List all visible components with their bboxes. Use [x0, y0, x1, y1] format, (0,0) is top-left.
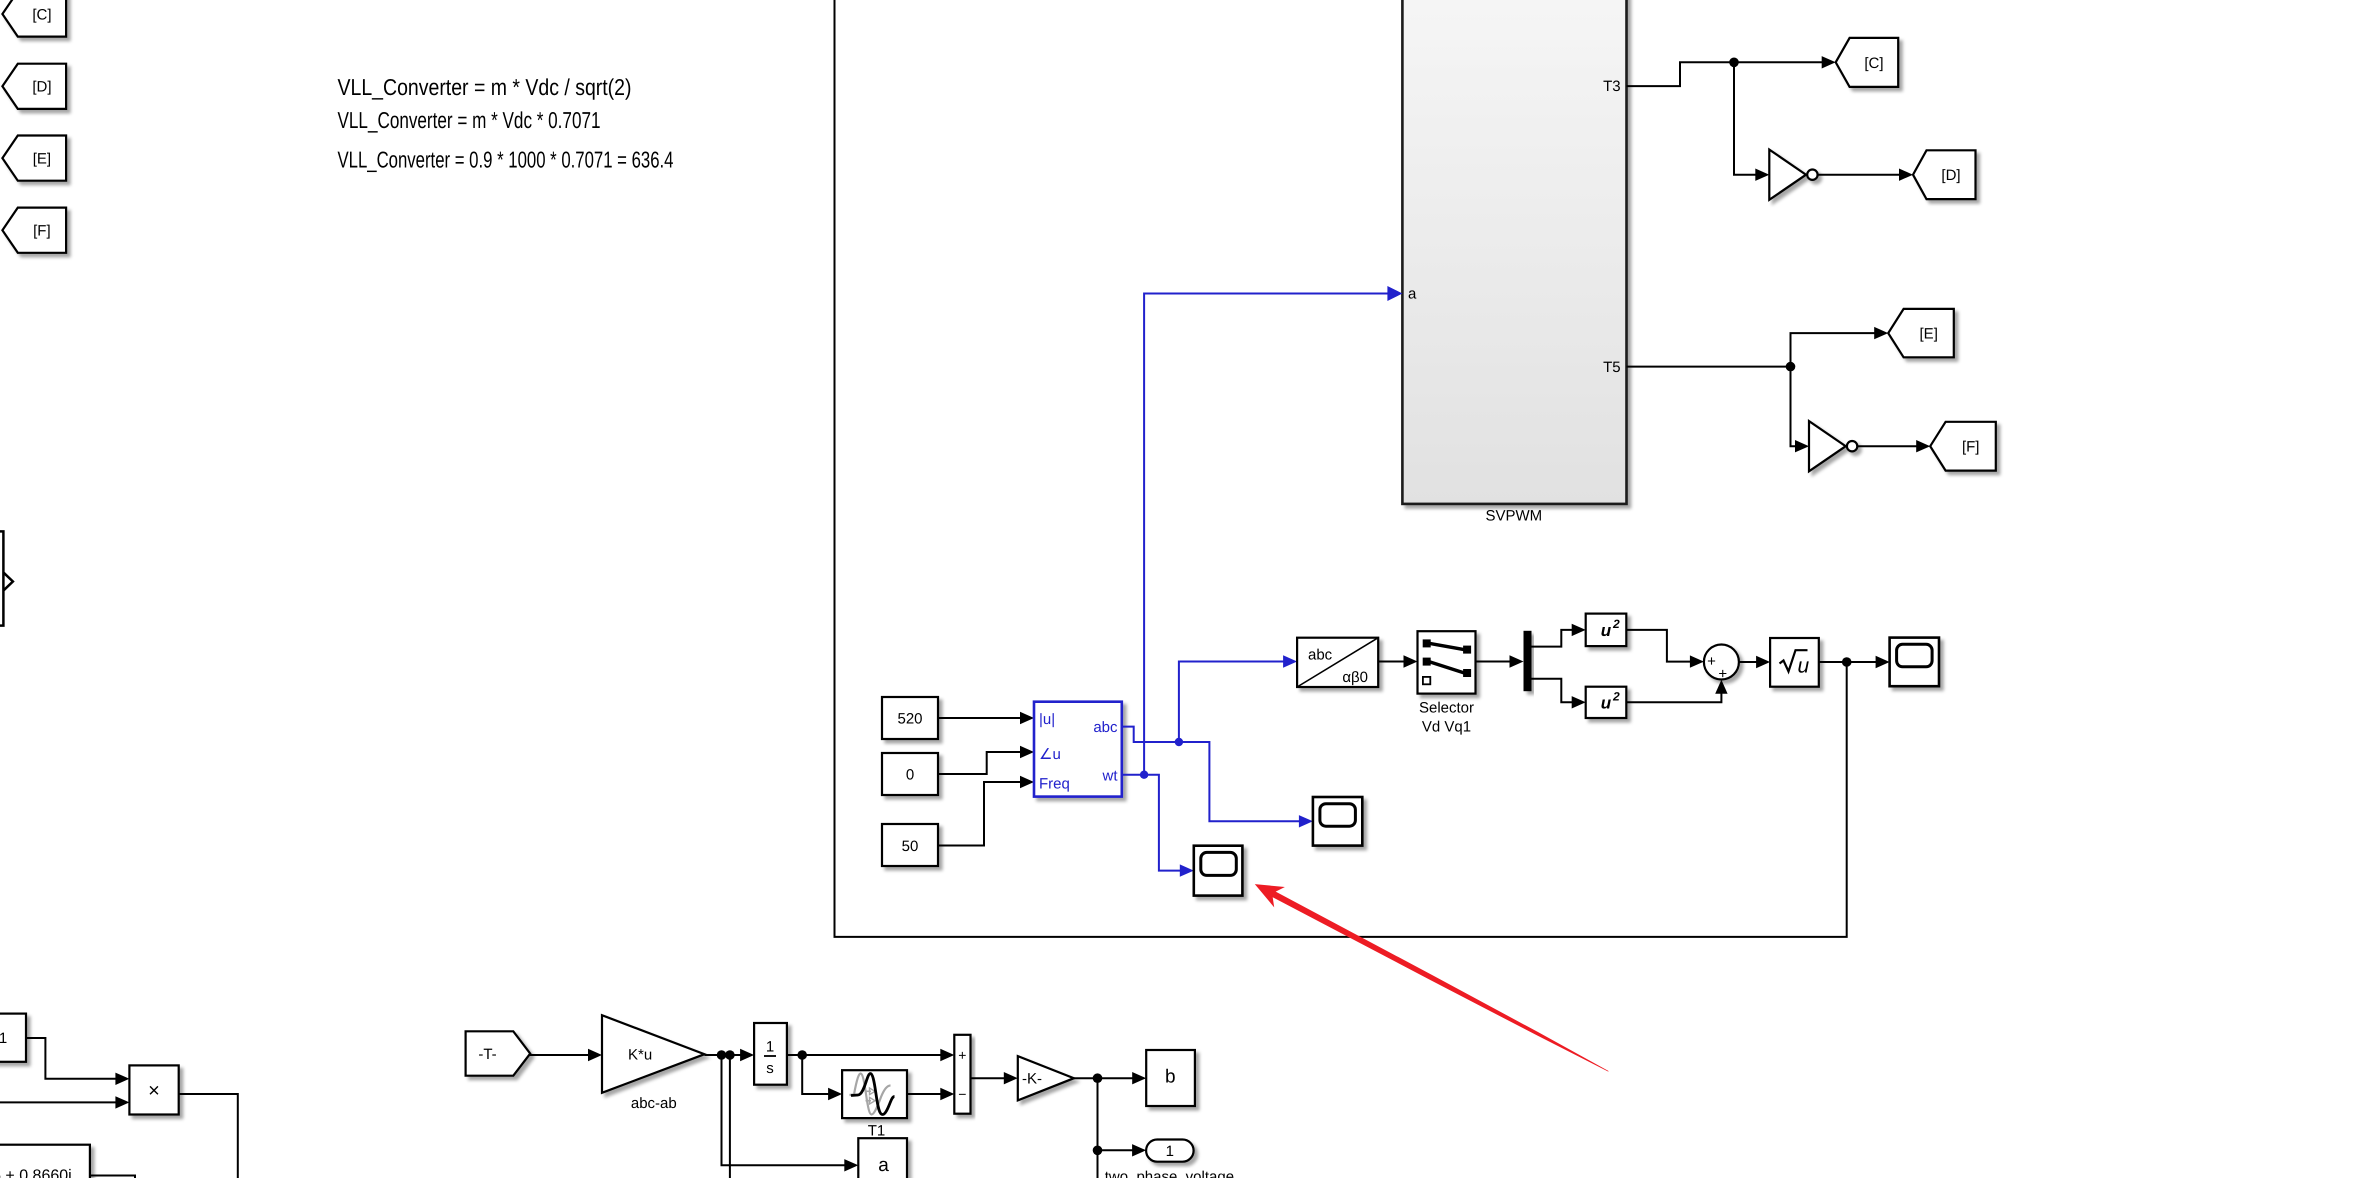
wire T1 to sum2 minus [907, 1093, 942, 1095]
junction after -K- [1093, 1073, 1103, 1083]
annotation VLL_Converter formulas [338, 74, 674, 173]
from tag [E] left column [2, 136, 66, 181]
wire sqrt to scope3 [1819, 661, 1878, 663]
wire branch down offscreen [729, 1055, 731, 1178]
svg-text:Vd Vq1: Vd Vq1 [1422, 719, 1471, 736]
partial output port block left edge [0, 531, 13, 625]
wire sum2 to gain -K- [971, 1077, 1006, 1079]
svg-text:abc: abc [1093, 719, 1118, 736]
goto tag [D] [1913, 150, 1976, 199]
sine wave generator block [1034, 702, 1122, 797]
svg-text:[D]: [D] [1941, 167, 1960, 184]
svg-text:-K-: -K- [1022, 1071, 1042, 1088]
wire demux to u2 top [1532, 630, 1574, 647]
scope2 [1194, 846, 1243, 896]
wire junction to goto C [1734, 61, 1824, 63]
block b [1146, 1050, 1195, 1106]
wire u2 top to sum [1626, 630, 1692, 662]
junction T3 [1729, 58, 1739, 68]
svg-text:a: a [1408, 286, 1417, 303]
svg-text:[C]: [C] [1864, 55, 1883, 72]
svg-text:T3: T3 [1603, 78, 1621, 95]
wire input2 to product [0, 1101, 117, 1103]
from tag [C] left column [2, 0, 66, 37]
not gate U2 [1809, 421, 1857, 471]
svg-text:T1: T1 [868, 1123, 886, 1140]
wire 0 to sin gen [938, 752, 1022, 774]
from tag [F] left column [2, 208, 66, 253]
svg-text:K*u: K*u [628, 1047, 652, 1064]
from tag [D] left column [2, 64, 66, 109]
wire integrator to sum2 plus [787, 1054, 942, 1056]
wire branch to block a [722, 1055, 847, 1165]
svg-text:520: 520 [897, 710, 922, 727]
goto tag [C] [1836, 38, 1899, 87]
selector block [1418, 631, 1476, 693]
svg-text:b: b [1165, 1067, 1176, 1088]
wire const1 to product [26, 1038, 117, 1079]
wire not gate 2 to goto F [1857, 445, 1918, 447]
gain K*u abc-ab [602, 1015, 705, 1093]
constant complex partial [0, 1145, 90, 1178]
wire continue down offscreen [1097, 1150, 1099, 1178]
wire wt down to scope2 [1144, 775, 1182, 871]
math sqrt block [1770, 638, 1819, 687]
svg-text:[F]: [F] [33, 223, 51, 240]
svg-text:T5: T5 [1603, 359, 1621, 376]
junction T5 [1786, 362, 1796, 372]
wire wt output junction [1122, 774, 1144, 776]
goto tag [E] [1888, 309, 1954, 357]
svg-text:1: 1 [0, 1030, 7, 1047]
wire gain to integrator [705, 1054, 743, 1056]
gain -K- [1018, 1056, 1074, 1100]
svg-text:Selector: Selector [1419, 700, 1474, 717]
goto tag [F] [1930, 422, 1996, 471]
wire junction down to not gate 2 [1791, 367, 1798, 447]
wire wt up to SVPWM a port [1144, 294, 1390, 775]
product block [129, 1065, 178, 1114]
transport delay T1 [842, 1070, 907, 1118]
svg-text:abc-ab: abc-ab [631, 1095, 677, 1112]
wire -K- to b [1074, 1077, 1134, 1079]
constant 520 [882, 697, 938, 739]
wire complex out [90, 1176, 135, 1178]
svg-text:wt: wt [1102, 768, 1119, 785]
outport 1 [1146, 1140, 1194, 1162]
constant 0 [882, 753, 938, 795]
math u^2 bottom [1586, 687, 1627, 718]
svg-text:[E]: [E] [33, 151, 51, 168]
junction outport [1093, 1146, 1103, 1156]
wire T3 to junction [1627, 62, 1735, 86]
svg-text:-T-: -T- [478, 1046, 496, 1063]
integrator 1/s [754, 1023, 787, 1085]
subsystem SVPWM [1402, 0, 1626, 504]
wire junction down to scope1 [1179, 742, 1301, 821]
svg-text:Freq: Freq [1039, 776, 1070, 793]
svg-text:2: 2 [1612, 690, 1620, 704]
from tag -T- [466, 1031, 531, 1075]
wire junction to goto E [1791, 333, 1877, 367]
block a [858, 1138, 907, 1178]
svg-text:αβ0: αβ0 [1342, 669, 1368, 686]
wire u2 bottom to sum [1626, 692, 1721, 703]
svg-text:VLL_Converter = m * Vdc * 0.70: VLL_Converter = m * Vdc * 0.7071 [338, 107, 601, 133]
svg-text:[D]: [D] [32, 79, 51, 96]
svg-text:2: 2 [1612, 617, 1620, 631]
svg-text:[E]: [E] [1920, 326, 1938, 343]
wire junction down to outport [1098, 1078, 1135, 1150]
wire T5 to junction [1627, 366, 1791, 368]
junction sqrt out [1842, 657, 1852, 667]
junction after integrator [797, 1050, 807, 1060]
scope3 [1890, 638, 1939, 687]
svg-text:[C]: [C] [32, 7, 51, 24]
svg-text:u: u [1601, 694, 1612, 713]
scope1 [1313, 797, 1362, 846]
wire not gate to goto D [1818, 174, 1901, 176]
svg-text:5 + 0.8660i: 5 + 0.8660i [0, 1168, 72, 1178]
wire sum to sqrt [1739, 661, 1758, 663]
svg-text:two_phase_voltage: two_phase_voltage [1105, 1169, 1234, 1178]
svg-text:−: − [958, 1086, 966, 1102]
svg-text:0: 0 [906, 766, 914, 783]
junction a1 [717, 1050, 727, 1060]
not gate U1 [1769, 150, 1817, 200]
svg-text:1: 1 [1166, 1143, 1174, 1160]
svg-text:abc: abc [1308, 647, 1333, 664]
wire abc output to junction [1122, 727, 1179, 742]
junction a2 [725, 1050, 735, 1060]
wire feedback loop left border [835, 0, 1847, 937]
constant 50 [882, 824, 938, 866]
wire demux to u2 bottom [1532, 679, 1574, 703]
sum add block [1704, 645, 1739, 683]
sum2 rectangular [954, 1035, 970, 1114]
svg-text:×: × [148, 1080, 160, 1102]
svg-text:u: u [1798, 655, 1810, 678]
wire product out [179, 1094, 238, 1178]
svg-text:s: s [766, 1060, 774, 1077]
svg-text:a: a [878, 1155, 889, 1176]
svg-text:+: + [1707, 653, 1716, 670]
abc to alpha-beta block [1297, 638, 1378, 687]
wire 50 to sin gen [938, 782, 1022, 846]
svg-text:∠u: ∠u [1039, 746, 1061, 763]
red annotation arrow [1255, 884, 1609, 1072]
svg-text:50: 50 [902, 838, 919, 855]
wire 520 to sin gen [938, 717, 1022, 719]
svg-text:+: + [1718, 666, 1727, 683]
math u^2 top [1586, 614, 1627, 647]
svg-text:1: 1 [766, 1039, 774, 1056]
wire -T- to gain [529, 1054, 590, 1056]
svg-text:|u|: |u| [1039, 711, 1055, 728]
svg-text:SVPWM: SVPWM [1485, 508, 1542, 525]
wire junction down to not gate [1734, 62, 1757, 174]
demux [1524, 631, 1532, 691]
junction wt [1140, 771, 1148, 779]
svg-text:[F]: [F] [1962, 439, 1980, 456]
wire junction up to abc-ab0 block [1179, 662, 1285, 743]
wire ab0 to selector [1378, 661, 1405, 663]
wire selector to demux [1476, 661, 1511, 663]
svg-text:VLL_Converter = m * Vdc / sqrt: VLL_Converter = m * Vdc / sqrt(2) [338, 74, 632, 100]
svg-text:VLL_Converter = 0.9 * 1000 * 0: VLL_Converter = 0.9 * 1000 * 0.7071 = 63… [338, 146, 674, 172]
svg-text:+: + [958, 1047, 966, 1063]
wire branch to transport delay T1 [802, 1055, 830, 1094]
svg-text:u: u [1601, 621, 1612, 640]
junction abc [1175, 738, 1183, 746]
constant 1 partial left [0, 1014, 26, 1062]
